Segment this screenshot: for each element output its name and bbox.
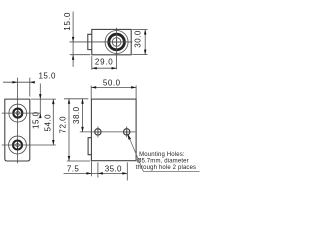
front hole 2 horizontal centerline [2,144,56,146]
leader diagonal segment [128,136,143,172]
arrow up at hole 1 centerline [39,113,42,118]
dimension 30.0 (right of top view, vertical) [132,30,147,55]
dim line 15.0 top-left [72,12,74,67]
top view inner circle [112,38,121,47]
svg-text:Ø5.7mm, diameter: Ø5.7mm, diameter [137,159,189,165]
mounting hole A center cross [95,129,100,134]
arrow at body edge [86,172,91,175]
extension line top face right [31,98,56,100]
leader arrowhead at hole B [127,133,131,140]
mounting holes horizontal centerline [80,131,136,133]
arrow up at top face [52,99,55,104]
extension line top face [132,29,147,31]
front hole 1 bore ring [13,109,22,118]
svg-text:15.0: 15.0 [63,12,72,31]
svg-text:29.0: 29.0 [95,57,114,66]
dimension 54.0 (right of front view, vertical) [44,99,55,145]
mounting hole B circle [124,129,130,135]
bottom dimensions 7.5 and 35.0 [64,162,128,181]
dimension 50.0 (above right view, horizontal) [91,79,136,100]
arrow down at centerline [72,37,75,42]
svg-text:54.0: 54.0 [44,114,53,132]
bottom dimension line [64,172,128,174]
arrow right at centerline [12,81,17,84]
front hole 2 inner circle [16,143,19,146]
dim line 54.0 [52,99,54,145]
front hole 2 bore ring [13,141,22,150]
arrow at hole B [122,172,127,175]
arrow down at holes centerline [81,127,84,132]
extension line bottom face [70,54,91,56]
mounting hole B vertical tick [126,126,128,137]
mounting holes note text [136,152,197,171]
dim line 29.0 [92,67,117,69]
svg-text:30.0: 30.0 [134,30,143,48]
extension line bottom face [132,54,147,56]
extension line right face [135,86,137,100]
mounting hole A circle [95,129,101,135]
arrow down at bottom face [68,156,71,161]
extension line from body left edge [90,162,92,177]
top view center cross [113,39,120,46]
extension line left face [91,56,93,70]
top view horizontal centerline [70,41,133,43]
dimension 29.0 (below top view, horizontal) [92,56,117,70]
svg-text:through hole 2 places: through hole 2 places [136,165,197,171]
right view bottom-left extension line [67,160,90,162]
extension line from hole A [97,162,99,177]
leader line from hole B to note [127,133,199,171]
front view body outline [5,99,30,161]
dimension 38.0 (left of right view, vertical) [72,99,84,132]
front hole 1 horizontal centerline [2,112,41,114]
dimension 15.0 (top left, vertical) [63,12,91,67]
front hole 1 outer circle [9,104,27,122]
arrow left [92,67,97,70]
svg-text:7.5: 7.5 [67,165,79,174]
arrow down [144,50,147,55]
dim line 38.0 [82,99,84,132]
svg-text:38.0: 38.0 [72,106,81,124]
arrow up at top face [68,99,71,104]
dim line 50.0 [91,86,136,88]
svg-text:72.0: 72.0 [58,116,67,134]
arrow down at top face [39,94,42,99]
front hole 1 inner circle [16,111,19,114]
mounting hole A vertical tick [97,126,99,137]
arrow left [91,86,96,89]
leader underline segment [144,171,200,173]
arrow up at bottom face [72,55,75,60]
right view top-left extension line [64,98,88,100]
dim line 15.0 vertical [39,84,41,118]
arrow down at hole 2 centerline [52,140,55,145]
dim line 30.0 [144,30,146,55]
arrow right [131,86,136,89]
arrow up [144,30,147,35]
arrow right [112,67,117,70]
dimension 15.0 (above front view, horizontal) [3,71,56,96]
extension line right face [29,78,31,97]
svg-text:50.0: 50.0 [103,79,121,88]
top view vertical centerline [116,28,118,70]
top view thick ring (bore) [109,34,125,50]
extension line from hole B [126,162,128,180]
svg-text:35.0: 35.0 [105,165,122,174]
top view left tab [88,34,92,49]
right view body outline [91,99,136,161]
arrow left at right face [30,81,35,84]
dimension 15.0 (right of front view, vertical) [31,84,56,130]
arrow up at top face [81,99,84,104]
front view vertical centerline [16,78,18,164]
front hole 2 outer circle [9,136,27,154]
svg-text:15.0: 15.0 [39,71,56,80]
arrow at hole A [98,172,103,175]
svg-text:15.0: 15.0 [32,111,41,129]
top view outer circle (boss) [105,31,128,54]
dim line 15.0 horizontal [3,81,33,83]
extension line left face [90,86,92,100]
top view body outline [92,29,131,54]
right view left tab [88,138,91,155]
svg-text:Mounting Holes:: Mounting Holes: [139,152,185,158]
dim line 72.0 [68,99,70,161]
dimension 72.0 (left of right view, vertical) [58,99,70,161]
mounting hole B center cross [124,129,129,134]
front hole 1 cross [14,110,21,117]
front hole 2 cross [14,141,21,148]
